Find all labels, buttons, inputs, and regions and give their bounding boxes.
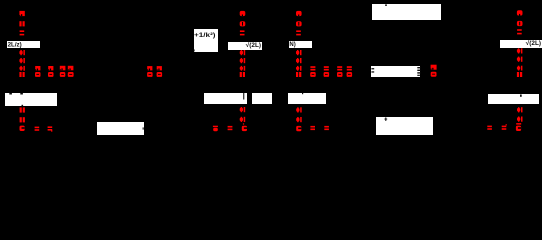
y-axis label box plot2 "sqrt(2L)" [228, 41, 262, 50]
y tick labels plot6 (column x=240) [240, 107, 246, 122]
y-axis label box plot1 "2L/z)" [7, 41, 40, 49]
svg-text:2L/z): 2L/z) [8, 42, 22, 49]
annotation box (bottom left-middle) [97, 122, 144, 135]
y tick labels plot7 (column x=296) [296, 107, 302, 131]
y tick labels plot8 (right column) [517, 107, 523, 122]
x-axis label box plot3 [288, 93, 326, 104]
x-axis label box plot4 [488, 94, 539, 104]
x-axis label box plot2b (small) [252, 93, 272, 104]
svg-text:√(2L): √(2L) [246, 41, 261, 49]
x tick labels plot1 [35, 66, 74, 77]
x tick labels plot8 [487, 123, 521, 131]
annotation box (bottom middle-right) with t-mark [376, 117, 433, 135]
y tick labels plot1 (left column) [19, 11, 25, 77]
y-axis label box plot4 "sqrt(2L)" [500, 39, 542, 48]
axis label box over x-axis (x=371..420) [371, 66, 421, 77]
title box (top right, mostly empty) [372, 4, 441, 20]
x-axis label box plot2 [204, 93, 247, 104]
svg-text:√(2L): √(2L) [526, 39, 541, 47]
svg-text:N): N) [289, 42, 295, 48]
y tick labels plot3 (column x=296) [296, 11, 302, 77]
y-axis label box plot3 "N)" [289, 41, 312, 48]
x tick labels plot6 [213, 123, 247, 131]
x-axis label box plot1 (bottom of plot1) [5, 93, 57, 106]
y tick labels plot2 (column x=240) [240, 11, 246, 77]
svg-text:+1/k²): +1/k²) [194, 32, 216, 39]
x tick labels plot3 [310, 66, 352, 77]
y tick labels plot4 (right column) [517, 10, 523, 77]
x tick labels plot1 (right pair) [147, 66, 162, 77]
annotation box "+1/k2)" [194, 29, 218, 52]
x tick label right of axis-label box [431, 65, 437, 77]
x tick labels plot5 [35, 126, 53, 131]
y tick labels plot5 (bottom-left column) [20, 107, 25, 131]
x tick labels plot7 [310, 126, 329, 130]
